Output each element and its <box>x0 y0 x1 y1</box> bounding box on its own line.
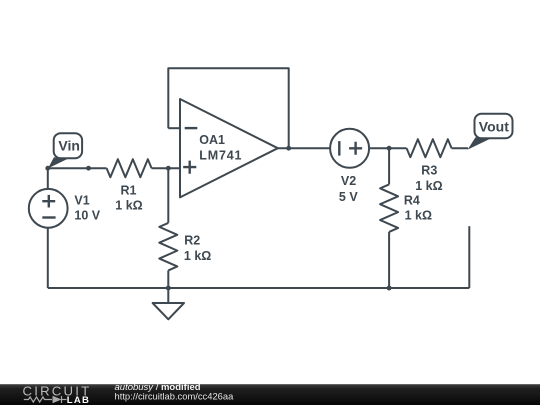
node plus input junction <box>166 166 171 171</box>
voltage source V2 <box>330 129 369 168</box>
flag Vout box <box>475 114 513 138</box>
flag Vout pointer <box>468 137 492 149</box>
wire R2 branch <box>167 168 169 288</box>
svg-text:R1: R1 <box>121 183 137 197</box>
svg-text:V1: V1 <box>74 193 89 207</box>
node op-amp output <box>286 146 291 151</box>
wire bottom rail <box>48 287 470 289</box>
svg-text:1 kΩ: 1 kΩ <box>184 249 211 263</box>
svg-text:LAB: LAB <box>67 395 90 405</box>
wire V2 to junction <box>369 147 407 149</box>
wire op-amp minus stub <box>168 127 180 129</box>
wire R4 branch <box>388 148 390 288</box>
node V2 right junction <box>387 146 392 151</box>
svg-text:V2: V2 <box>341 174 356 188</box>
svg-text:OA1: OA1 <box>199 133 225 147</box>
svg-text:1 kΩ: 1 kΩ <box>415 179 442 193</box>
wire main input horizontal <box>48 167 180 169</box>
svg-text:Vin: Vin <box>58 138 80 154</box>
logo zigzag diode <box>24 396 67 403</box>
flag Vin box <box>54 133 82 158</box>
svg-text:R4: R4 <box>404 194 420 208</box>
resistor R3 <box>407 139 452 157</box>
node wire joint <box>86 166 91 171</box>
flag Vin pointer <box>48 157 69 168</box>
resistor R2 <box>159 223 177 271</box>
svg-text:5 V: 5 V <box>339 190 358 204</box>
footer bar <box>0 384 540 405</box>
svg-text:R2: R2 <box>184 233 200 247</box>
wire V1 top lead <box>47 168 49 189</box>
svg-text:1 kΩ: 1 kΩ <box>115 199 142 213</box>
node V1 top <box>45 166 50 171</box>
voltage source V1 <box>29 189 68 228</box>
wire right dangling <box>468 226 470 288</box>
wire op-amp output <box>278 147 330 149</box>
resistor R4 <box>380 184 398 232</box>
wire V1 bottom lead <box>47 228 49 288</box>
svg-text:R3: R3 <box>421 163 437 177</box>
ground <box>153 288 184 319</box>
svg-text:1 kΩ: 1 kΩ <box>405 209 432 223</box>
svg-text:Vout: Vout <box>479 119 509 135</box>
wire R3 to Vout <box>452 147 468 149</box>
wire feedback loop <box>168 68 288 148</box>
op-amp OA1 <box>180 99 278 197</box>
svg-text:10 V: 10 V <box>74 209 100 223</box>
node R4 bottom junction <box>387 286 392 291</box>
svg-text:http://circuitlab.com/cc426aa: http://circuitlab.com/cc426aa <box>115 391 235 402</box>
resistor R1 <box>107 159 152 177</box>
svg-text:LM741: LM741 <box>199 149 242 163</box>
node ground junction <box>166 286 171 291</box>
